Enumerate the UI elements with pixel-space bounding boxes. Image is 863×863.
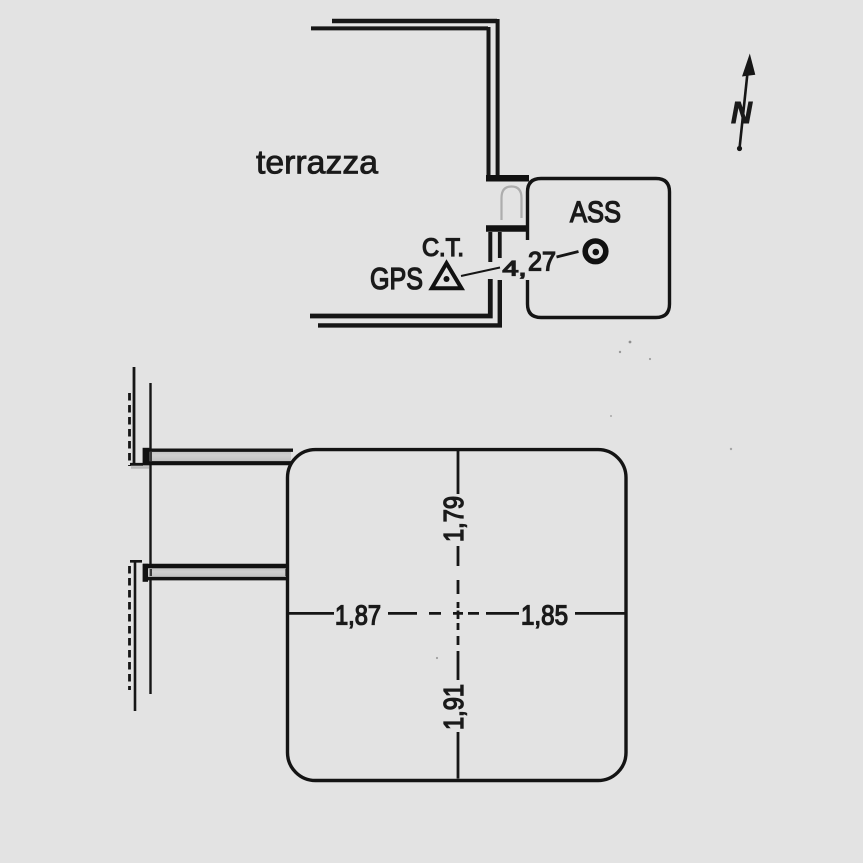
svg-text:C.T.: C.T. xyxy=(422,234,464,262)
svg-text:N: N xyxy=(731,95,753,130)
svg-text:ASS: ASS xyxy=(570,196,621,229)
svg-text:27: 27 xyxy=(528,247,556,277)
svg-text:4,: 4, xyxy=(503,258,527,281)
svg-text:1,85: 1,85 xyxy=(521,600,568,631)
svg-text:1,87: 1,87 xyxy=(335,600,381,631)
svg-text:1,91: 1,91 xyxy=(438,684,469,730)
svg-text:terrazza: terrazza xyxy=(256,145,378,182)
svg-text:GPS: GPS xyxy=(370,261,423,296)
svg-text:1,79: 1,79 xyxy=(438,496,469,542)
